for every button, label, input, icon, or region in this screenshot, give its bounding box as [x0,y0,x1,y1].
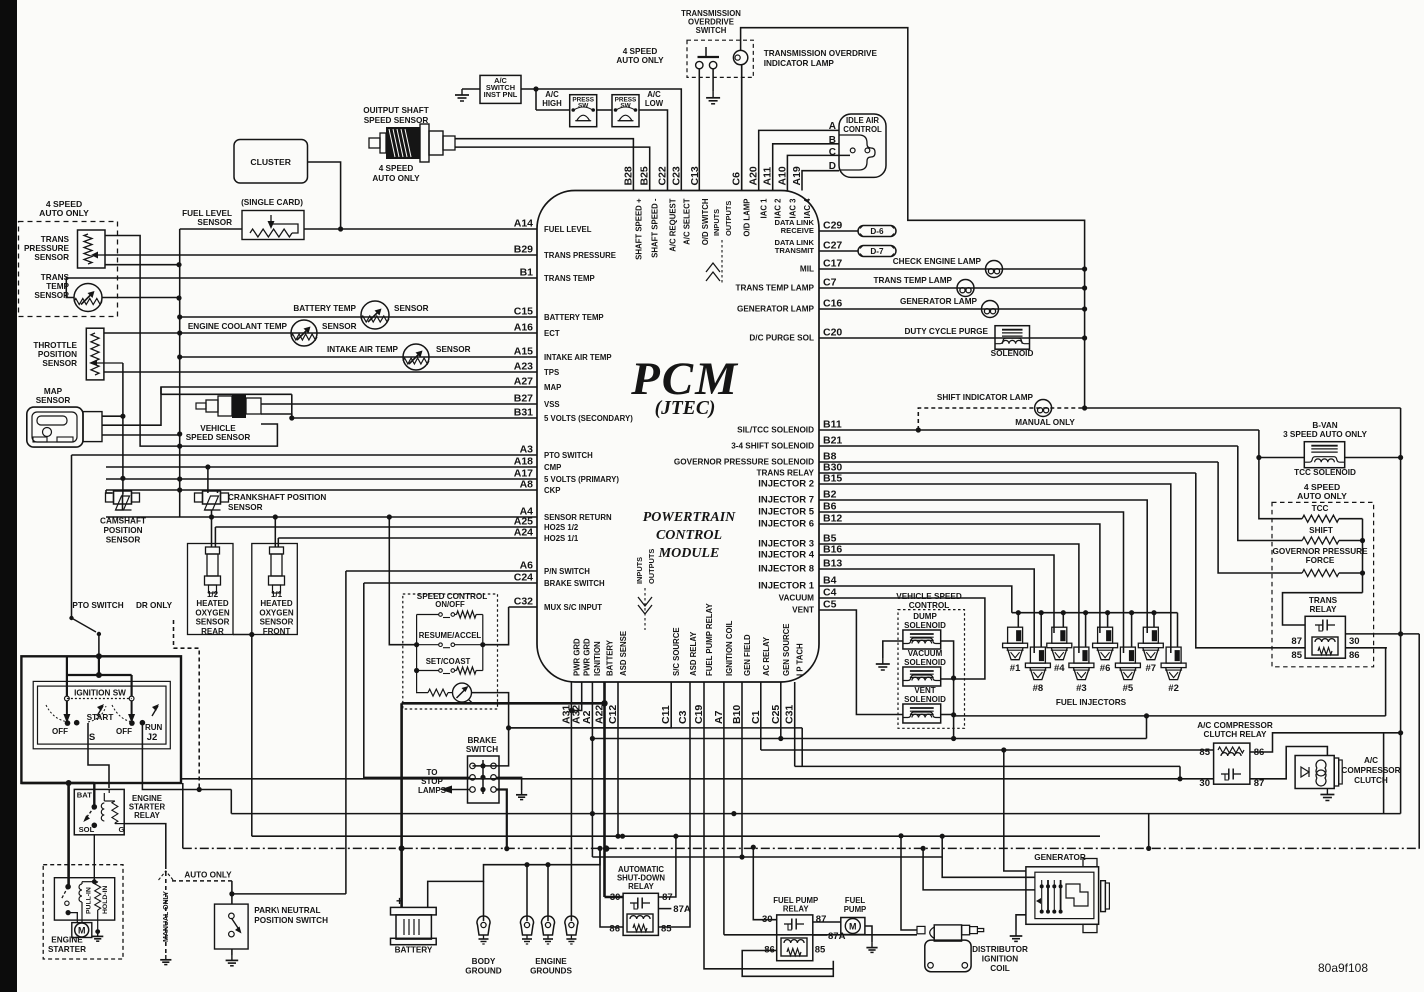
svg-text:IDLE AIR: IDLE AIR [846,116,879,125]
svg-text:DR ONLY: DR ONLY [136,601,173,610]
svg-text:PRESSURE: PRESSURE [24,244,70,253]
svg-text:C27: C27 [823,240,842,252]
svg-text:AUTO ONLY: AUTO ONLY [616,56,664,65]
svg-text:VEHICLE: VEHICLE [200,424,236,433]
svg-text:RUN: RUN [145,723,163,732]
svg-text:#3: #3 [1076,683,1087,694]
svg-text:TRANS TEMP LAMP: TRANS TEMP LAMP [873,276,952,285]
svg-text:IAC 2: IAC 2 [774,198,783,219]
svg-text:TRANSMISSION OVERDRIVE: TRANSMISSION OVERDRIVE [764,49,878,58]
svg-text:SOLENOID: SOLENOID [904,658,946,667]
svg-text:PARK\ NEUTRAL: PARK\ NEUTRAL [254,906,320,915]
svg-text:A24: A24 [514,527,533,539]
svg-text:MANUAL ONLY: MANUAL ONLY [163,891,170,942]
svg-text:PTO SWITCH: PTO SWITCH [72,601,123,610]
svg-text:SWITCH: SWITCH [696,26,727,35]
svg-text:#2: #2 [1168,683,1179,694]
svg-text:BRAKE SWITCH: BRAKE SWITCH [544,579,605,588]
svg-text:POSITION SWITCH: POSITION SWITCH [254,916,328,925]
svg-text:C19: C19 [693,705,705,724]
svg-text:B10: B10 [731,705,743,724]
svg-text:SW: SW [578,103,589,110]
svg-text:B16: B16 [823,544,842,556]
svg-text:87A: 87A [673,904,691,915]
svg-text:M: M [78,926,86,936]
svg-text:FORCE: FORCE [1306,556,1335,565]
svg-text:OFF: OFF [116,727,132,736]
svg-text:O/D LAMP: O/D LAMP [743,199,752,237]
svg-text:A15: A15 [514,346,533,358]
svg-text:INJECTOR 7: INJECTOR 7 [758,495,814,506]
svg-text:B12: B12 [823,513,842,525]
svg-text:RELAY: RELAY [1310,605,1338,614]
svg-text:INTAKE AIR TEMP: INTAKE AIR TEMP [544,353,612,362]
svg-text:CAMSHAFT: CAMSHAFT [100,517,146,526]
svg-text:OUTPUTS: OUTPUTS [724,201,733,236]
svg-text:HOLD-IN: HOLD-IN [102,886,109,914]
svg-text:B13: B13 [823,558,842,570]
svg-text:OUITPUT SHAFT: OUITPUT SHAFT [363,106,429,115]
svg-text:A20: A20 [748,166,760,185]
svg-text:START: START [87,713,114,722]
svg-text:(SINGLE CARD): (SINGLE CARD) [241,198,303,207]
svg-text:INPUTS: INPUTS [635,557,644,584]
svg-text:B25: B25 [639,166,651,185]
svg-text:CONTROL: CONTROL [909,601,949,610]
svg-text:TRANSMIT: TRANSMIT [775,246,815,255]
svg-text:BRAKE: BRAKE [467,736,497,745]
svg-text:C16: C16 [823,298,842,310]
svg-text:A11: A11 [762,167,774,186]
svg-text:1/2: 1/2 [207,590,219,599]
svg-text:RELAY: RELAY [628,882,655,891]
svg-text:SENSOR: SENSOR [394,304,429,313]
svg-text:C31: C31 [784,705,796,724]
svg-text:STARTER: STARTER [48,945,86,954]
svg-text:SHIFT: SHIFT [1309,526,1333,535]
svg-text:HEATED: HEATED [196,599,229,608]
svg-text:B27: B27 [514,393,533,405]
svg-text:STOP: STOP [421,777,443,786]
svg-text:C12: C12 [607,705,619,724]
svg-text:3-4 SHIFT SOLENOID: 3-4 SHIFT SOLENOID [731,442,814,451]
svg-text:VACUUM: VACUUM [779,594,815,603]
svg-text:VENT: VENT [792,606,814,615]
svg-text:GENERATOR LAMP: GENERATOR LAMP [737,305,815,314]
svg-text:SENSOR: SENSOR [36,396,71,405]
svg-text:CRANKSHAFT POSITION: CRANKSHAFT POSITION [228,493,326,502]
svg-text:GOVERNOR PRESSURE: GOVERNOR PRESSURE [1272,547,1368,556]
svg-text:INJECTOR 5: INJECTOR 5 [758,507,815,518]
svg-text:TCC SOLENOID: TCC SOLENOID [1294,468,1356,477]
svg-text:87: 87 [816,914,827,925]
svg-text:INST PNL: INST PNL [484,90,518,99]
svg-text:ON/OFF: ON/OFF [435,600,465,609]
svg-text:A8: A8 [520,479,534,491]
svg-text:HIGH: HIGH [542,99,562,108]
svg-text:A/C: A/C [1364,756,1378,765]
svg-text:C23: C23 [670,166,682,185]
svg-text:D/C PURGE SOL: D/C PURGE SOL [749,334,814,343]
svg-text:TRANS TEMP LAMP: TRANS TEMP LAMP [735,284,814,293]
svg-text:B15: B15 [823,473,842,485]
svg-text:PULL-IN: PULL-IN [86,887,93,914]
svg-text:TRANS: TRANS [41,235,70,244]
svg-text:LAMPS: LAMPS [418,786,447,795]
svg-text:30: 30 [1349,636,1360,647]
svg-text:TCC: TCC [1312,504,1329,513]
svg-text:C5: C5 [823,599,837,611]
svg-text:REAR: REAR [201,627,224,636]
svg-text:CLUSTER: CLUSTER [250,157,291,167]
svg-text:VEHICLE SPEED: VEHICLE SPEED [896,592,962,601]
svg-text:POWERTRAIN: POWERTRAIN [643,510,736,525]
svg-text:85: 85 [1199,747,1210,758]
svg-text:INDICATOR LAMP: INDICATOR LAMP [764,59,835,68]
svg-text:A27: A27 [514,376,533,388]
svg-text:THROTTLE: THROTTLE [33,341,77,350]
svg-text:85: 85 [1291,650,1302,661]
svg-text:#7: #7 [1146,663,1157,674]
svg-text:85: 85 [815,945,826,956]
svg-text:TRANS: TRANS [1309,596,1338,605]
svg-text:O/D SWITCH: O/D SWITCH [701,198,710,245]
svg-text:S: S [89,732,95,743]
svg-text:C7: C7 [823,277,837,289]
svg-text:A/C SELECT: A/C SELECT [682,198,691,245]
svg-text:PUMP: PUMP [844,905,867,914]
svg-text:C24: C24 [514,572,533,584]
svg-text:85: 85 [661,924,672,935]
svg-text:RELAY: RELAY [134,811,161,820]
svg-text:C11: C11 [660,705,672,724]
svg-text:B6: B6 [823,501,837,513]
svg-text:ENGINE: ENGINE [51,936,83,945]
svg-text:A/C REQUEST: A/C REQUEST [669,198,678,252]
svg-text:A10: A10 [776,166,788,185]
svg-text:B2: B2 [823,489,837,501]
svg-text:87: 87 [1291,636,1302,647]
svg-text:C3: C3 [677,710,689,724]
svg-text:RESUME/ACCEL: RESUME/ACCEL [419,631,482,640]
svg-text:B21: B21 [823,435,842,447]
svg-text:HO2S 1/2: HO2S 1/2 [544,523,579,532]
svg-text:P/N SWITCH: P/N SWITCH [544,567,590,576]
svg-text:80a9f108: 80a9f108 [1318,961,1368,975]
svg-text:INJECTOR 1: INJECTOR 1 [758,581,815,592]
svg-text:LOW: LOW [645,99,664,108]
svg-text:M: M [849,922,857,932]
svg-text:I P TACH: I P TACH [796,643,805,676]
svg-text:CKP: CKP [544,486,560,495]
svg-text:B29: B29 [514,244,533,256]
svg-text:FUEL: FUEL [845,896,866,905]
svg-text:C1: C1 [750,710,762,724]
svg-text:87A: 87A [828,931,846,942]
svg-text:3 SPEED AUTO ONLY: 3 SPEED AUTO ONLY [1283,430,1367,439]
svg-text:1/1: 1/1 [271,590,283,599]
svg-text:IGNITION COIL: IGNITION COIL [725,620,734,676]
svg-text:SPEED SENSOR: SPEED SENSOR [364,116,429,125]
svg-text:HEATED: HEATED [260,599,293,608]
svg-text:SHIFT INDICATOR LAMP: SHIFT INDICATOR LAMP [937,393,1034,402]
svg-text:C15: C15 [514,306,533,318]
svg-text:DUTY CYCLE PURGE: DUTY CYCLE PURGE [904,327,988,336]
svg-text:B4: B4 [823,575,837,587]
svg-text:C22: C22 [657,166,669,185]
svg-text:IAC 3: IAC 3 [788,198,797,219]
svg-text:MAP: MAP [544,383,561,392]
svg-text:S/C SOURCE: S/C SOURCE [672,627,681,676]
svg-text:FUEL INJECTORS: FUEL INJECTORS [1056,698,1127,707]
svg-text:SENSOR: SENSOR [228,503,263,512]
svg-text:SENSOR: SENSOR [197,218,232,227]
svg-text:IGNITION: IGNITION [982,955,1018,964]
svg-text:MUX S/C INPUT: MUX S/C INPUT [544,603,602,612]
svg-text:A14: A14 [514,218,533,230]
svg-text:RELAY: RELAY [783,904,810,913]
svg-text:TRANS TEMP: TRANS TEMP [544,274,595,283]
svg-text:BAT: BAT [77,790,92,799]
svg-text:SENSOR: SENSOR [260,618,294,627]
svg-text:DISTRIBUTOR: DISTRIBUTOR [972,945,1028,954]
svg-text:D-6: D-6 [870,227,884,236]
svg-text:SW: SW [620,103,631,110]
svg-text:CONTROL: CONTROL [656,528,722,543]
svg-text:SOLENOID: SOLENOID [904,621,946,630]
svg-text:SENSOR RETURN: SENSOR RETURN [544,513,612,522]
svg-text:#5: #5 [1123,683,1134,694]
svg-text:INTAKE AIR TEMP: INTAKE AIR TEMP [327,345,398,354]
svg-text:INJECTOR 3: INJECTOR 3 [758,539,814,550]
svg-text:B11: B11 [823,419,842,431]
svg-text:CMP: CMP [544,463,561,472]
svg-text:BATTERY TEMP: BATTERY TEMP [544,313,604,322]
svg-text:GENERATOR LAMP: GENERATOR LAMP [900,297,978,306]
svg-text:D-7: D-7 [870,247,884,256]
svg-text:FUEL PUMP RELAY: FUEL PUMP RELAY [705,603,714,676]
svg-text:MANUAL ONLY: MANUAL ONLY [1015,418,1075,427]
svg-text:C20: C20 [823,327,842,339]
svg-text:AUTO ONLY: AUTO ONLY [39,208,89,218]
svg-text:AUTO ONLY: AUTO ONLY [1297,491,1347,501]
svg-text:COIL: COIL [990,964,1010,973]
svg-text:A3: A3 [520,444,534,456]
svg-text:PWR GRD: PWR GRD [572,638,581,676]
svg-text:FUEL LEVEL: FUEL LEVEL [544,225,592,234]
svg-text:TPS: TPS [544,368,559,377]
svg-text:A7: A7 [713,710,725,724]
svg-text:TRANS RELAY: TRANS RELAY [757,469,815,478]
svg-text:B28: B28 [622,166,634,185]
svg-text:SWITCH: SWITCH [466,745,498,754]
svg-text:(JTEC): (JTEC) [655,398,716,419]
svg-text:RECEIVE: RECEIVE [781,226,814,235]
svg-text:C29: C29 [823,220,842,232]
svg-text:C6: C6 [731,172,743,186]
svg-text:IGNITION: IGNITION [593,641,602,676]
svg-text:C4: C4 [823,587,837,599]
svg-text:OFF: OFF [52,727,68,736]
svg-text:B31: B31 [514,407,533,419]
svg-text:87: 87 [1254,778,1265,789]
svg-text:SOL: SOL [79,825,95,834]
svg-text:A16: A16 [514,322,533,334]
svg-text:A/C: A/C [545,90,559,99]
svg-text:INPUTS: INPUTS [712,209,721,236]
svg-text:86: 86 [1349,650,1360,661]
svg-text:SHAFT SPEED -: SHAFT SPEED - [651,198,660,258]
svg-text:INJECTOR 6: INJECTOR 6 [758,519,814,530]
svg-text:A/C COMPRESSOR: A/C COMPRESSOR [1197,721,1273,730]
svg-text:GROUNDS: GROUNDS [530,967,572,976]
svg-text:TRANS PRESSURE: TRANS PRESSURE [544,251,616,260]
svg-text:IGNITION SW: IGNITION SW [74,689,126,698]
svg-text:INJECTOR 2: INJECTOR 2 [758,479,814,490]
svg-text:BATTERY: BATTERY [395,946,433,955]
svg-text:BODY: BODY [472,957,496,966]
svg-text:POSITION: POSITION [38,350,77,359]
svg-text:OXYGEN: OXYGEN [195,608,229,617]
svg-text:4 SPEED: 4 SPEED [623,47,658,56]
svg-text:OXYGEN: OXYGEN [259,608,293,617]
svg-text:G: G [119,825,125,834]
svg-text:5 VOLTS (PRIMARY): 5 VOLTS (PRIMARY) [544,475,619,484]
svg-text:SENSOR: SENSOR [42,359,77,368]
svg-text:C: C [829,147,836,158]
svg-text:#4: #4 [1054,663,1065,674]
svg-text:POSITION: POSITION [103,526,142,535]
svg-text:IAC 1: IAC 1 [760,198,769,219]
svg-text:30: 30 [1199,778,1210,789]
svg-text:SENSOR: SENSOR [34,253,69,262]
svg-text:GOVERNOR PRESSURE SOLENOID: GOVERNOR PRESSURE SOLENOID [674,458,814,467]
svg-text:A2: A2 [581,710,593,724]
svg-text:FRONT: FRONT [263,627,291,636]
svg-text:HO2S 1/1: HO2S 1/1 [544,534,579,543]
svg-text:CLUTCH RELAY: CLUTCH RELAY [1204,730,1267,739]
svg-text:C32: C32 [514,596,533,608]
svg-text:TRANS: TRANS [41,273,70,282]
svg-text:#1: #1 [1010,663,1021,674]
svg-text:SENSOR: SENSOR [106,536,141,545]
svg-text:SENSOR: SENSOR [34,291,69,300]
svg-text:MIL: MIL [800,265,814,274]
svg-text:GENERATOR: GENERATOR [1034,853,1086,862]
svg-text:TO: TO [427,768,438,777]
svg-text:GEN SOURCE: GEN SOURCE [782,624,791,676]
svg-text:SHAFT SPEED +: SHAFT SPEED + [634,198,643,260]
svg-text:SPEED SENSOR: SPEED SENSOR [186,433,251,442]
svg-text:CHECK ENGINE LAMP: CHECK ENGINE LAMP [893,257,982,266]
svg-text:GEN FIELD: GEN FIELD [743,634,752,676]
svg-text:COMPRESSOR: COMPRESSOR [1341,766,1400,775]
svg-text:A18: A18 [514,456,533,468]
svg-text:GROUND: GROUND [465,967,501,976]
svg-text:DUMP: DUMP [913,612,937,621]
svg-text:ENGINE COOLANT TEMP: ENGINE COOLANT TEMP [188,322,288,331]
svg-text:SIL/TCC SOLENOID: SIL/TCC SOLENOID [737,426,814,435]
svg-text:B1: B1 [520,267,534,279]
svg-text:VENT: VENT [914,686,935,695]
svg-text:MAP: MAP [44,387,63,396]
svg-text:A6: A6 [520,560,534,572]
svg-text:IAC 4: IAC 4 [803,198,812,219]
svg-text:A23: A23 [514,361,533,373]
svg-text:SOLENOID: SOLENOID [904,695,946,704]
svg-text:INJECTOR 8: INJECTOR 8 [758,564,814,575]
svg-text:MODULE: MODULE [658,546,720,561]
svg-text:5 VOLTS (SECONDARY): 5 VOLTS (SECONDARY) [544,414,633,423]
svg-text:ECT: ECT [544,329,560,338]
svg-text:#8: #8 [1033,683,1044,694]
svg-text:C25: C25 [770,705,782,724]
svg-text:SENSOR: SENSOR [196,618,230,627]
svg-text:CONTROL: CONTROL [843,125,882,134]
svg-text:SOLENOID: SOLENOID [991,349,1034,358]
svg-text:#6: #6 [1100,663,1111,674]
svg-text:AUTO ONLY: AUTO ONLY [184,871,232,880]
svg-text:INJECTOR 4: INJECTOR 4 [758,550,815,561]
svg-text:C17: C17 [823,258,842,270]
svg-text:AUTO ONLY: AUTO ONLY [372,174,420,183]
svg-text:FUEL LEVEL: FUEL LEVEL [182,209,232,218]
svg-text:VACUUM: VACUUM [908,649,943,658]
svg-text:B-VAN: B-VAN [1312,421,1337,430]
svg-text:ASD SENSE: ASD SENSE [619,631,628,676]
svg-text:A/C: A/C [647,90,661,99]
svg-text:BATTERY: BATTERY [606,639,615,676]
svg-text:PTO SWITCH: PTO SWITCH [544,451,593,460]
svg-text:ASD RELAY: ASD RELAY [689,631,698,676]
svg-text:VSS: VSS [544,400,560,409]
svg-text:4 SPEED: 4 SPEED [379,164,414,173]
svg-text:SET/COAST: SET/COAST [426,657,471,666]
svg-text:SENSOR: SENSOR [436,345,471,354]
svg-text:AC RELAY: AC RELAY [762,636,771,676]
svg-text:A19: A19 [791,166,803,185]
svg-text:ENGINE: ENGINE [535,957,567,966]
svg-text:J2: J2 [147,732,158,743]
svg-text:BATTERY TEMP: BATTERY TEMP [293,304,356,313]
svg-text:86: 86 [609,924,620,935]
svg-text:OUTPUTS: OUTPUTS [647,549,656,584]
svg-text:PWR GRD: PWR GRD [583,638,592,676]
svg-text:SENSOR: SENSOR [322,322,357,331]
svg-text:CLUTCH: CLUTCH [1354,776,1388,785]
